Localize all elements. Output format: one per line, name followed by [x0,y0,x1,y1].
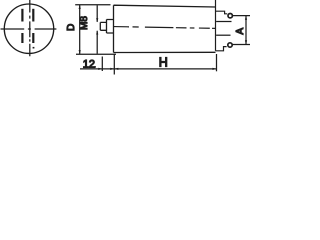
vertical centerline (dash-dot) of end view [29,0,31,56]
period after 12 [94,66,96,68]
terminal tab bottom-right (end view) [32,33,34,43]
dimension line A (vertical with arrows) [245,16,247,45]
D top extension line [75,4,110,6]
dimension line D (vertical with arrows) [79,5,81,55]
A top arrow [245,16,247,20]
terminal tab bottom-left (end view) [21,33,23,43]
12 arrow (pointing right at left extension) [98,68,102,70]
A top extension line (from top crimp ring) [233,15,251,17]
M8 upper arrow (pointing down at stud top) [96,18,98,22]
svg-text:A: A [235,28,246,35]
svg-text:D: D [66,24,77,31]
D bottom arrow [79,50,81,54]
top cap / crimp profile at right end [216,11,228,14]
A bottom extension line (from bottom crimp ring) [232,44,250,46]
svg-text:12: 12 [83,58,95,70]
H left arrow (pointing left) [114,68,118,70]
lid inner line upper [216,21,231,23]
small dot below bottom-right tab [33,47,35,49]
12 left extension line [101,57,103,72]
bottom dimension line (12 and H share it) [80,68,216,70]
12 arrow (pointing right at shared extension) [110,68,114,70]
body outline (side view): left edge, top edge, bottom edge [114,5,216,52]
dimension line M8 (vertical, outside arrows at stud) [96,5,98,54]
terminal tab top-left (end view) [21,9,23,22]
body centerline (dash-dot, side view, slightly sloped) [113,27,215,29]
svg-text:H: H [159,55,168,69]
stud boss (hex base) [107,20,114,34]
terminal tab top-right (end view) [32,9,34,22]
end-view circle (capacitor can outline, top view) [4,4,53,53]
svg-text:M8: M8 [79,16,90,30]
12/H shared extension line (body left edge extended) [113,55,115,75]
top crimp ring [228,14,232,18]
lid inner line lower [216,34,230,36]
M8 mounting stud (threaded) [100,22,106,30]
H right extension line [216,54,218,71]
bottom crimp ring [228,43,232,47]
H right arrow (pointing right) [213,68,217,70]
D / M8 bottom extension line [76,53,116,55]
A bottom arrow [245,40,247,44]
D top arrow [79,5,81,9]
M8 lower arrow (pointing up at stud bottom) [96,31,98,35]
seam vertical line at lid joint (extends to image top) [215,0,217,51]
horizontal centerline (dash-dot) of end view [1,28,57,30]
bottom cap / crimp profile at right end [216,47,227,51]
